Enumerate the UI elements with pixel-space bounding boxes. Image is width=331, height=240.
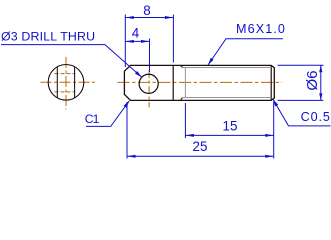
ext line right end (dims 15/25): [273, 102, 275, 159]
thread lead-in top: [181, 65, 183, 67]
leader C0.5: [273, 99, 331, 126]
dim line Ø6: [320, 65, 322, 100]
arrow dim15 left: [185, 134, 194, 137]
arrow dim4 right: [141, 40, 150, 43]
arrow dim8 right: [165, 16, 174, 19]
arrow Ø6 bottom: [319, 93, 322, 100]
arrow Ø6 top: [319, 65, 322, 72]
svg-text:C1: C1: [85, 112, 100, 126]
dim line 8: [125, 17, 173, 19]
ext line thread start (dim 15): [184, 103, 186, 138]
dim line 15: [185, 134, 273, 136]
thread minor diameter bottom: [183, 97, 272, 99]
svg-text:M6X1.0: M6X1.0: [236, 22, 286, 36]
svg-text:C0.5: C0.5: [301, 110, 331, 124]
svg-text:25: 25: [193, 139, 208, 154]
shoulder line head/shaft: [172, 65, 174, 100]
hole Ø3 circle: [139, 74, 158, 93]
leader M6X1.0: [208, 39, 283, 65]
arrow leader C1: [124, 101, 130, 108]
thread lead-in bottom: [181, 98, 183, 101]
hole silhouette chord left (left view): [56, 67, 58, 98]
chamfer start line right end: [270, 65, 272, 100]
arrow leader C0.5: [273, 99, 278, 106]
body outline: [124, 65, 274, 100]
centerline part axis: [118, 81, 283, 83]
arrow dim25 left: [127, 155, 136, 158]
hole silhouette chord right (left view): [74, 67, 76, 98]
svg-text:Ø6: Ø6: [304, 70, 321, 90]
thread minor diameter top: [183, 67, 272, 69]
arrow dim25 right: [265, 155, 274, 158]
centerline horizontal (left view): [41, 81, 97, 83]
hidden line hole upper (left view): [55, 73, 76, 75]
leader C1: [86, 101, 129, 127]
dim line 25: [127, 155, 274, 157]
ext line Ø6 bottom: [278, 99, 324, 101]
leader Ø3 drill thru: [1, 45, 142, 78]
arrow dim4 left: [125, 40, 134, 43]
arrowheads: [124, 16, 323, 158]
svg-text:8: 8: [143, 3, 150, 18]
arrow dim15 right: [265, 134, 274, 137]
thread start line: [184, 68, 186, 98]
circle body Ø6 (left view): [48, 65, 84, 101]
svg-text:Ø3 DRILL THRU: Ø3 DRILL THRU: [1, 29, 95, 43]
arrow dim8 left: [125, 16, 134, 19]
ext line shoulder (dim 8): [172, 15, 174, 63]
dim line 4: [125, 40, 149, 42]
arrow leader Ø3: [135, 71, 142, 77]
svg-text:15: 15: [223, 118, 238, 133]
ext line left end (dims 8/4): [124, 15, 126, 68]
svg-text:4: 4: [132, 26, 140, 41]
ext line Ø6 top: [278, 64, 324, 66]
centerline vertical (left view): [65, 57, 67, 110]
hidden line hole lower (left view): [55, 91, 76, 93]
ext line hole center (dim 4): [149, 39, 151, 73]
ext line left end bottom (dim 25): [126, 102, 128, 159]
centerline hole vertical: [148, 70, 150, 108]
arrow leader M6: [208, 58, 214, 65]
